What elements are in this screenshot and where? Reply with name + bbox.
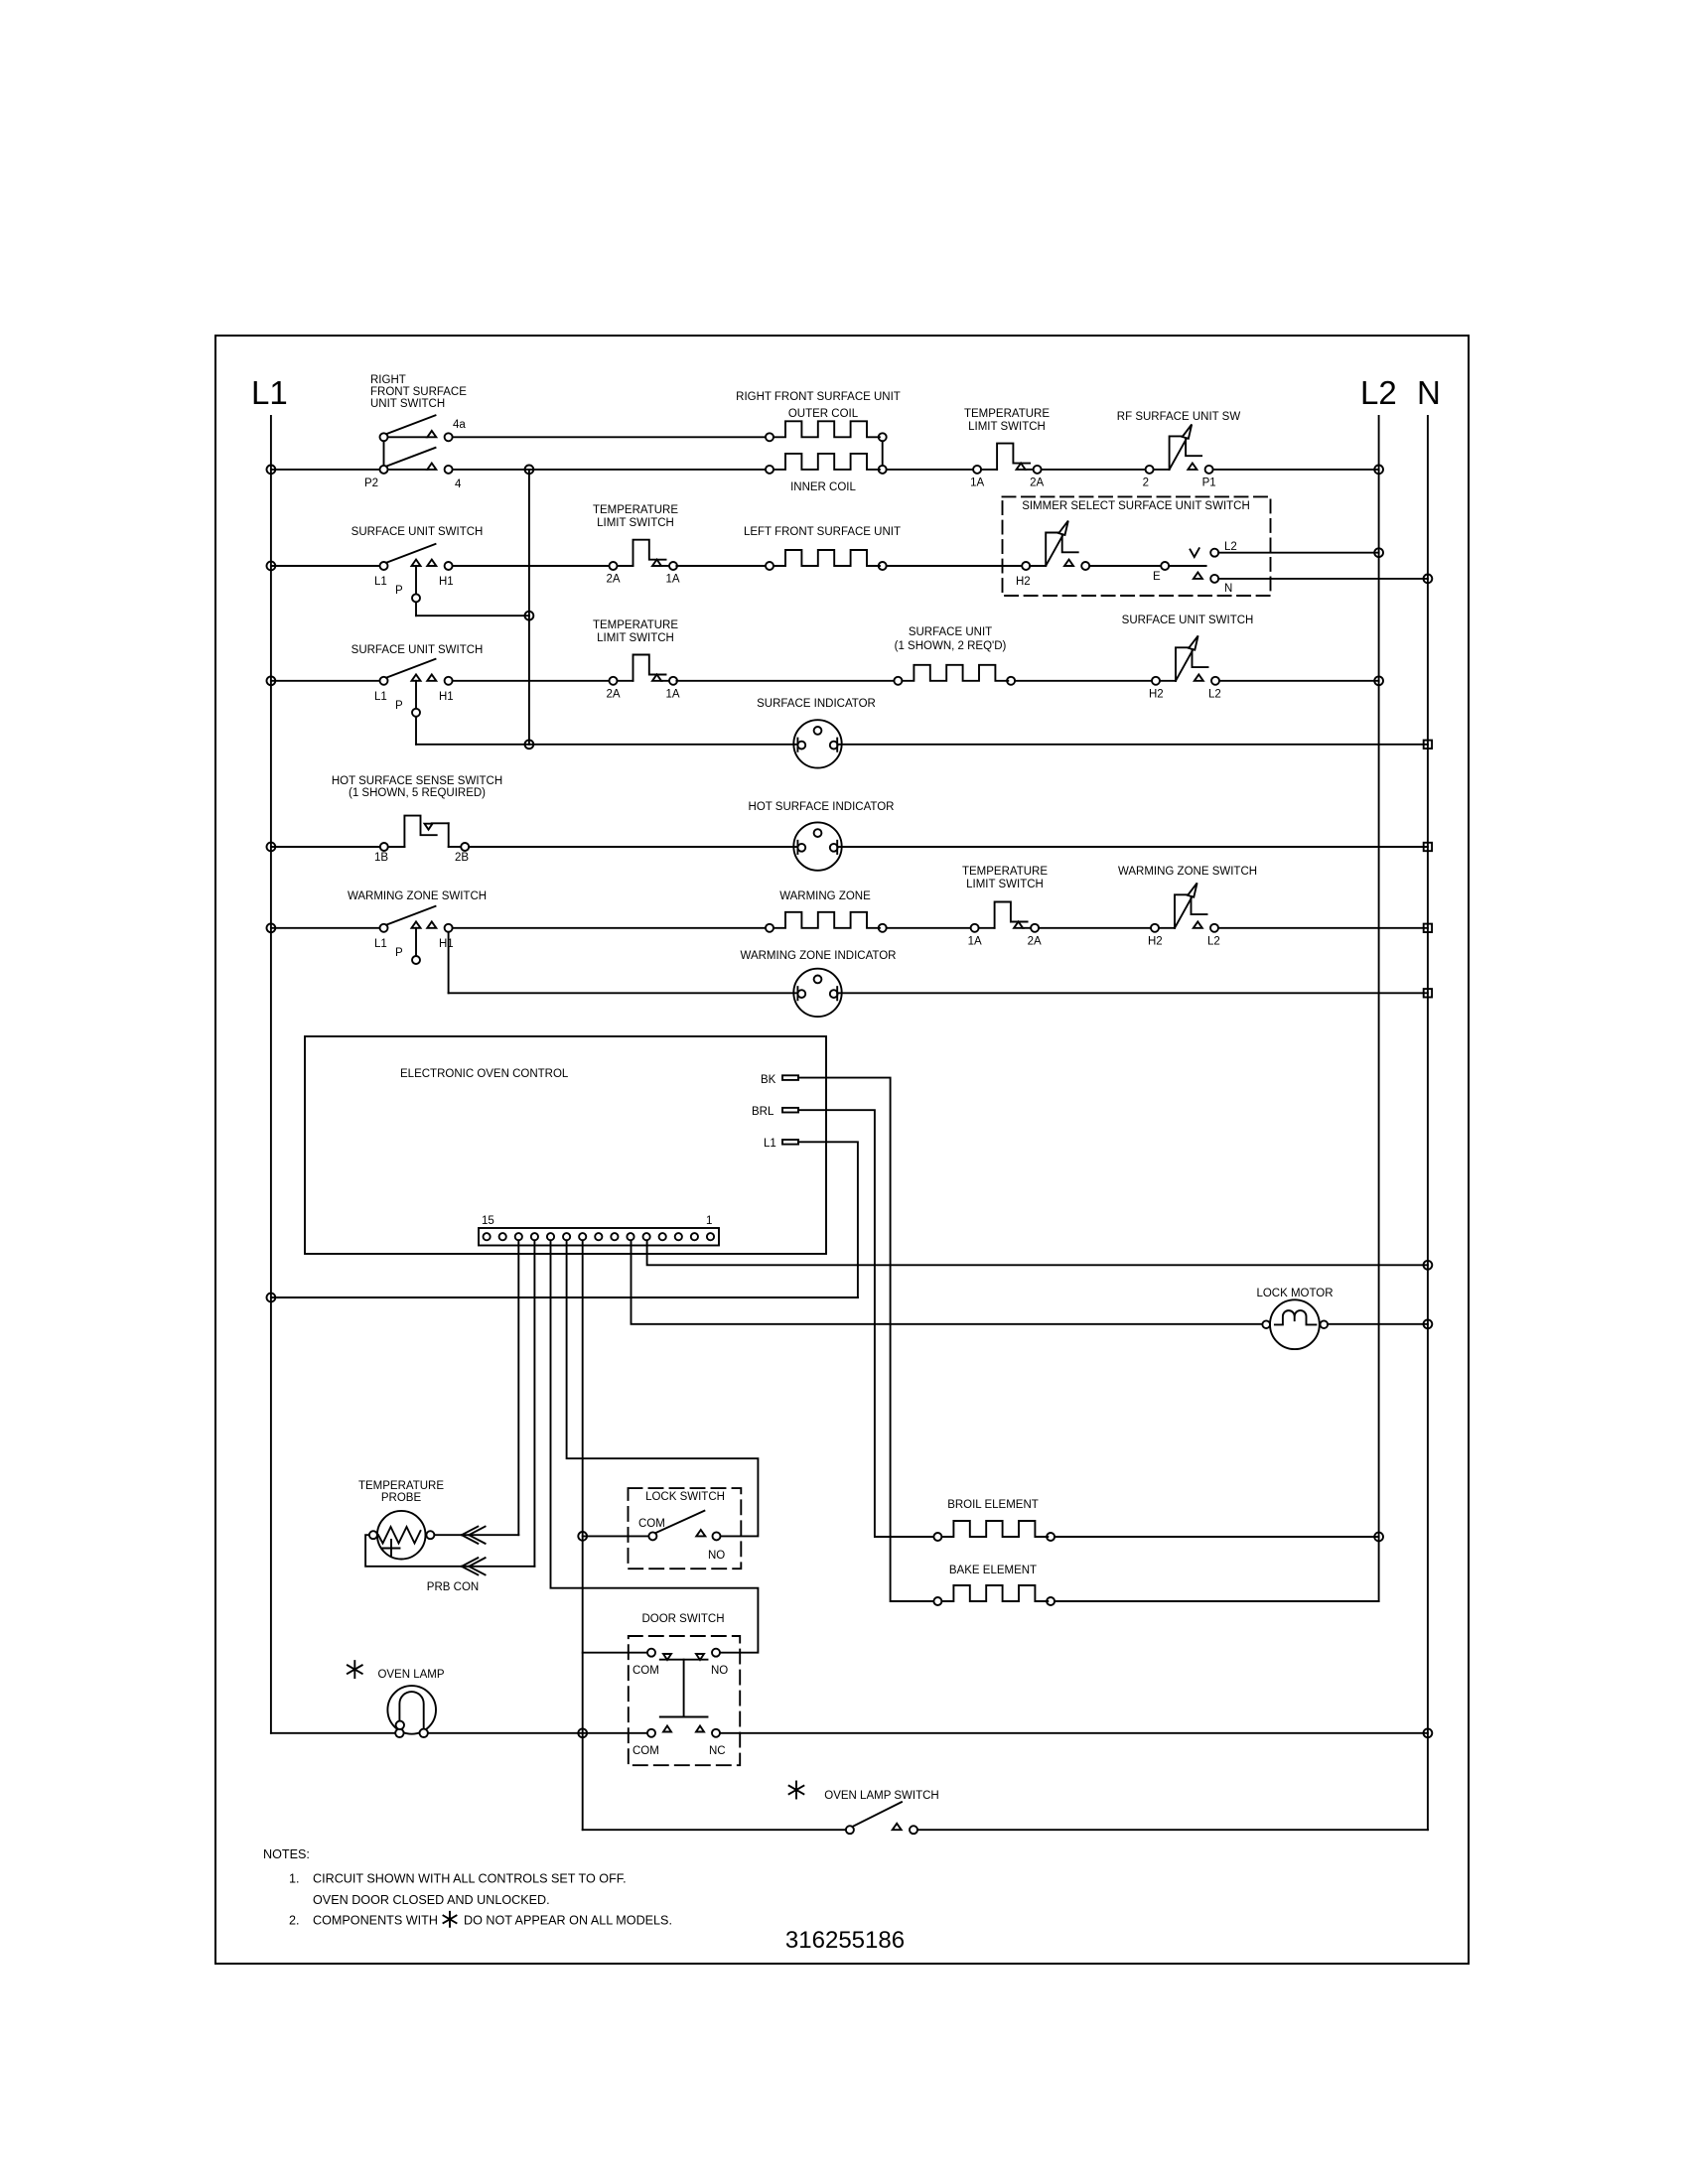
svg-text:4: 4	[455, 478, 462, 490]
svg-text:OUTER COIL: OUTER COIL	[788, 408, 859, 420]
switch surface unit switch row4	[380, 677, 388, 685]
wire pin9 to lock COM	[583, 1535, 649, 1537]
connector PRB CON bottom chevrons	[462, 1558, 478, 1567]
wire 1A to coil row3	[676, 565, 766, 567]
svg-text:COMPONENTS WITH: COMPONENTS WITH	[313, 1914, 438, 1928]
wire oven lamp to junction	[428, 1732, 647, 1734]
wire pin9 to door COM top	[583, 1652, 647, 1654]
wire L1 bus vertical	[270, 416, 272, 1733]
svg-text:HOT SURFACE SENSE SWITCH: HOT SURFACE SENSE SWITCH	[332, 775, 502, 787]
junction x533 surface indicator row	[525, 740, 534, 749]
switch RF surface unit switch pole 4	[380, 466, 388, 474]
wire E stub	[1169, 565, 1205, 567]
svg-text:OVEN DOOR CLOSED AND UNLOCKED.: OVEN DOOR CLOSED AND UNLOCKED.	[313, 1893, 550, 1907]
wire pin9 to oven lamp switch	[583, 1829, 846, 1831]
junction N surface indicator	[1424, 741, 1432, 749]
svg-text:RIGHT: RIGHT	[370, 374, 406, 386]
svg-text:L2: L2	[1360, 374, 1397, 411]
junction L1 row3	[267, 562, 276, 571]
simmer select surface unit switch box	[1003, 496, 1271, 596]
wire oven lamp switch to N	[917, 1829, 1428, 1831]
junction N warming zone	[1424, 924, 1432, 932]
svg-text:COM: COM	[638, 1518, 665, 1530]
heater broil element	[933, 1533, 941, 1541]
wire warming zone row left	[271, 927, 380, 929]
svg-text:PROBE: PROBE	[381, 1492, 422, 1504]
wire N bus vertical	[1427, 416, 1429, 1830]
svg-text:2A: 2A	[1028, 935, 1042, 947]
border frame	[215, 336, 1469, 1964]
wire row 4a	[388, 436, 428, 438]
switch surface unit switch rotary row4	[1152, 677, 1160, 685]
svg-text:HOT SURFACE INDICATOR: HOT SURFACE INDICATOR	[749, 801, 895, 813]
svg-text:TEMPERATURE: TEMPERATURE	[593, 619, 678, 631]
junction N pin5 row	[1424, 1261, 1433, 1270]
svg-text:LIMIT SWITCH: LIMIT SWITCH	[966, 879, 1044, 890]
svg-text:FRONT SURFACE: FRONT SURFACE	[370, 386, 467, 398]
label oven lamp switch	[795, 1782, 797, 1799]
svg-text:NO: NO	[711, 1665, 728, 1677]
junction L1 row2	[267, 466, 276, 475]
wire probe top to pin13	[434, 1534, 518, 1536]
temperature limit switch row2	[973, 466, 981, 474]
switch RF surface unit switch pole 4a	[380, 433, 388, 441]
svg-text:1: 1	[706, 1215, 712, 1227]
wire bake to L2	[1055, 1600, 1379, 1602]
svg-text:P1: P1	[1202, 477, 1216, 488]
wire warming L2 to N bus	[1218, 927, 1428, 929]
door switch plunger	[660, 1659, 708, 1661]
svg-text:H1: H1	[439, 938, 454, 950]
lock switch box	[629, 1488, 742, 1569]
svg-text:LOCK SWITCH: LOCK SWITCH	[645, 1491, 725, 1503]
svg-text:H2: H2	[1149, 688, 1164, 700]
wire hot surface to indicator	[469, 846, 797, 848]
wire H1 to coil warming zone	[453, 927, 767, 929]
svg-text:P2: P2	[364, 478, 378, 489]
wire 2A to 2	[1042, 469, 1146, 471]
wire pin9 down	[582, 1240, 584, 1830]
lamp warming zone indicator	[793, 969, 841, 1017]
svg-text:15: 15	[482, 1215, 494, 1227]
heater surface unit	[894, 677, 902, 685]
svg-text:WARMING ZONE INDICATOR: WARMING ZONE INDICATOR	[741, 950, 897, 962]
svg-text:2A: 2A	[1030, 477, 1044, 488]
svg-text:UNIT SWITCH: UNIT SWITCH	[370, 398, 445, 410]
wire surface indicator row	[837, 744, 1428, 746]
resistor temperature probe	[377, 1511, 426, 1560]
switch warming zone switch	[380, 924, 388, 932]
svg-text:SURFACE UNIT: SURFACE UNIT	[909, 626, 992, 638]
wire broil to L2	[1055, 1536, 1379, 1538]
wire P1 to L2	[1213, 469, 1379, 471]
wire BK to bake	[798, 1078, 933, 1601]
temperature limit switch warming	[971, 924, 979, 932]
junction L2 row4	[1374, 676, 1383, 685]
svg-text:LOCK MOTOR: LOCK MOTOR	[1256, 1288, 1333, 1299]
wire L2 bus vertical	[1378, 416, 1380, 1601]
svg-text:ELECTRONIC OVEN CONTROL: ELECTRONIC OVEN CONTROL	[400, 1068, 569, 1080]
svg-text:SURFACE UNIT SWITCH: SURFACE UNIT SWITCH	[352, 644, 484, 656]
motor lock motor	[1270, 1299, 1320, 1349]
wire coil to 1A warming	[887, 927, 971, 929]
wire L1 EOC down	[798, 1142, 858, 1297]
wire coil join vertical	[882, 441, 884, 466]
junction N simmer	[1424, 575, 1433, 584]
wire pin6 to lock motor	[632, 1240, 1263, 1324]
switch door switch bottom contacts	[647, 1729, 655, 1737]
svg-text:TEMPERATURE: TEMPERATURE	[964, 408, 1050, 420]
svg-text:DOOR SWITCH: DOOR SWITCH	[641, 1613, 724, 1625]
svg-text:NC: NC	[709, 1745, 726, 1757]
heater bake element	[933, 1597, 941, 1605]
wire row2 coil to 1A	[887, 469, 973, 471]
wire P pigtail row4	[415, 681, 417, 709]
lamp surface indicator	[793, 720, 841, 767]
wire P pigtail row3	[415, 566, 417, 594]
contact v mark L2	[1191, 548, 1199, 557]
svg-text:1A: 1A	[666, 688, 680, 700]
svg-text:1A: 1A	[666, 574, 680, 586]
svg-text:SURFACE INDICATOR: SURFACE INDICATOR	[757, 698, 876, 710]
switch surface unit switch row3	[380, 562, 388, 570]
junction L1 hot surface	[267, 843, 276, 852]
svg-text:RIGHT FRONT SURFACE UNIT: RIGHT FRONT SURFACE UNIT	[736, 391, 901, 403]
svg-text:L2: L2	[1224, 541, 1237, 553]
switch hot surface sense	[380, 843, 388, 851]
svg-text:WARMING ZONE: WARMING ZONE	[779, 890, 871, 902]
svg-text:4a: 4a	[453, 419, 466, 431]
junction N hot surface indicator	[1424, 843, 1432, 851]
temperature limit switch row4	[610, 677, 618, 685]
terminal simmer L2	[1210, 549, 1218, 557]
svg-text:H2: H2	[1148, 935, 1163, 947]
svg-text:1.: 1.	[289, 1872, 300, 1886]
wire to E	[1089, 565, 1161, 567]
label oven lamp	[353, 1661, 355, 1678]
svg-text:L2: L2	[1207, 935, 1220, 947]
svg-text:L1: L1	[374, 576, 387, 588]
svg-text:L1: L1	[764, 1138, 776, 1150]
junction L2 row2	[1374, 466, 1383, 475]
junction N oven lamp row	[1424, 1728, 1433, 1737]
svg-text:OVEN LAMP SWITCH: OVEN LAMP SWITCH	[824, 1790, 938, 1802]
junction x533 P row3	[525, 612, 534, 620]
svg-text:2: 2	[1143, 477, 1149, 488]
wire probe return	[365, 1535, 534, 1567]
svg-text:BK: BK	[761, 1074, 776, 1086]
svg-text:P: P	[395, 947, 403, 959]
wire row P2-4 left	[271, 469, 380, 471]
junction N lock motor	[1424, 1319, 1433, 1328]
wire door NC to N	[720, 1732, 1428, 1734]
wire H1 to 2A row4	[453, 680, 610, 682]
wire x533 vertical	[528, 470, 530, 745]
wire pin13 to probe	[517, 1240, 519, 1535]
svg-text:BROIL ELEMENT: BROIL ELEMENT	[947, 1499, 1039, 1511]
wire lock motor to N	[1328, 1323, 1428, 1325]
switch simmer select rotary	[1022, 562, 1030, 570]
heater inner coil	[766, 466, 774, 474]
wire L2 row4 to bus	[1219, 680, 1379, 682]
svg-text:LIMIT SWITCH: LIMIT SWITCH	[597, 632, 674, 644]
switch oven lamp switch	[846, 1826, 854, 1834]
svg-text:L1: L1	[374, 691, 387, 703]
contact triangle N	[1194, 573, 1202, 579]
svg-text:NO: NO	[708, 1550, 725, 1562]
svg-text:SIMMER SELECT SURFACE UNIT SWI: SIMMER SELECT SURFACE UNIT SWITCH	[1022, 500, 1250, 512]
svg-text:1A: 1A	[968, 935, 982, 947]
wire L1 bus to EOC row	[271, 1297, 858, 1298]
svg-text:BAKE ELEMENT: BAKE ELEMENT	[949, 1565, 1037, 1576]
switch warming zone rotary	[1151, 924, 1159, 932]
svg-text:1B: 1B	[374, 852, 388, 864]
svg-text:L2: L2	[1208, 688, 1221, 700]
wire BRL to broil	[798, 1110, 933, 1537]
svg-text:2A: 2A	[607, 574, 621, 586]
heater left front surface unit	[766, 562, 774, 570]
lamp oven lamp	[387, 1686, 436, 1734]
svg-text:INNER COIL: INNER COIL	[790, 481, 856, 493]
heater outer coil	[766, 433, 774, 441]
wire hot surface row left	[271, 846, 380, 848]
wire coil to H2 row4	[1015, 680, 1152, 682]
svg-text:2.: 2.	[289, 1914, 300, 1928]
svg-text:LIMIT SWITCH: LIMIT SWITCH	[597, 517, 674, 529]
junction L1 warming zone	[267, 923, 276, 932]
svg-text:TEMPERATURE: TEMPERATURE	[358, 1480, 444, 1492]
terminal E	[1161, 562, 1169, 570]
svg-text:COM: COM	[633, 1665, 659, 1677]
svg-text:H1: H1	[439, 691, 454, 703]
wire warming indicator to N	[837, 992, 1428, 994]
junction L1 row4	[267, 676, 276, 685]
svg-text:OVEN LAMP: OVEN LAMP	[377, 1669, 444, 1681]
svg-text:2A: 2A	[607, 688, 621, 700]
svg-text:1A: 1A	[970, 477, 984, 488]
temperature limit switch row3	[610, 562, 618, 570]
heater warming zone	[766, 924, 774, 932]
lamp hot surface indicator	[793, 822, 841, 870]
svg-text:NOTES:: NOTES:	[263, 1847, 310, 1861]
svg-text:DO NOT APPEAR ON ALL MODELS.: DO NOT APPEAR ON ALL MODELS.	[464, 1914, 672, 1928]
terminal strip	[479, 1228, 719, 1246]
svg-text:L1: L1	[374, 938, 387, 950]
svg-text:N: N	[1224, 583, 1232, 595]
wire pin12 to probe return	[533, 1240, 535, 1567]
svg-text:RF SURFACE UNIT SW: RF SURFACE UNIT SW	[1117, 411, 1241, 423]
svg-text:(1 SHOWN, 2 REQ'D): (1 SHOWN, 2 REQ'D)	[895, 640, 1007, 652]
wire row3 left	[271, 565, 380, 567]
svg-text:LEFT FRONT SURFACE UNIT: LEFT FRONT SURFACE UNIT	[744, 526, 901, 538]
junction x533 row2	[525, 466, 534, 475]
junction N warming indicator	[1424, 989, 1432, 997]
svg-text:WARMING ZONE SWITCH: WARMING ZONE SWITCH	[348, 890, 487, 902]
wire oven lamp row segment left of door	[271, 1732, 395, 1734]
junction pin9 lock COM	[578, 1532, 587, 1541]
wire P2 link vertical	[383, 441, 385, 466]
svg-text:316255186: 316255186	[785, 1927, 905, 1954]
wire H1 to 2A row3	[453, 565, 610, 567]
svg-text:N: N	[1417, 374, 1441, 411]
svg-text:H1: H1	[439, 576, 454, 588]
svg-text:LIMIT SWITCH: LIMIT SWITCH	[968, 421, 1046, 433]
svg-text:SURFACE UNIT SWITCH: SURFACE UNIT SWITCH	[1122, 614, 1254, 626]
wire pin5 to N	[647, 1240, 1428, 1265]
switch lock switch	[648, 1532, 656, 1540]
svg-text:P: P	[395, 585, 403, 597]
wire P pigtail warming zone	[415, 928, 417, 956]
connector PRB CON top chevrons	[462, 1527, 478, 1536]
svg-text:H2: H2	[1016, 576, 1031, 588]
junction L1 EOC row	[267, 1294, 276, 1302]
svg-text:P: P	[395, 700, 403, 712]
svg-text:WARMING ZONE SWITCH: WARMING ZONE SWITCH	[1118, 866, 1257, 878]
door switch box	[629, 1636, 740, 1765]
svg-text:(1 SHOWN, 5 REQUIRED): (1 SHOWN, 5 REQUIRED)	[349, 787, 486, 799]
svg-text:TEMPERATURE: TEMPERATURE	[593, 504, 678, 516]
svg-text:PRB CON: PRB CON	[427, 1581, 479, 1593]
junction L2 broil	[1374, 1533, 1383, 1542]
wire pin10 to lock NO	[567, 1240, 759, 1536]
wire H1 down to warming indicator	[448, 932, 450, 994]
junction pin9 oven lamp row	[578, 1728, 587, 1737]
wire row4 left	[271, 680, 380, 682]
wire simmer L2 to bus	[1218, 552, 1378, 554]
terminal simmer N	[1210, 575, 1218, 583]
svg-text:2B: 2B	[455, 852, 469, 864]
junction L2 simmer	[1374, 548, 1383, 557]
svg-text:TEMPERATURE: TEMPERATURE	[962, 866, 1048, 878]
electronic oven control box	[305, 1036, 826, 1254]
svg-text:SURFACE UNIT SWITCH: SURFACE UNIT SWITCH	[352, 526, 484, 538]
wire coil to simmer box	[887, 565, 1022, 567]
svg-text:COM: COM	[633, 1745, 659, 1757]
svg-text:CIRCUIT SHOWN WITH ALL CONTROL: CIRCUIT SHOWN WITH ALL CONTROLS SET TO O…	[313, 1872, 627, 1886]
switch RF surface unit SW rotary	[1146, 466, 1154, 474]
wire simmer N to bus	[1218, 578, 1428, 580]
switch door switch top contacts	[647, 1649, 655, 1657]
svg-text:BRL: BRL	[752, 1106, 774, 1118]
svg-text:L1: L1	[251, 374, 288, 411]
wire pin11 to door NO	[551, 1240, 759, 1652]
svg-text:E: E	[1153, 571, 1161, 583]
wire 1A to coil row4	[676, 680, 894, 682]
wire 2A to H2 warming	[1039, 927, 1151, 929]
